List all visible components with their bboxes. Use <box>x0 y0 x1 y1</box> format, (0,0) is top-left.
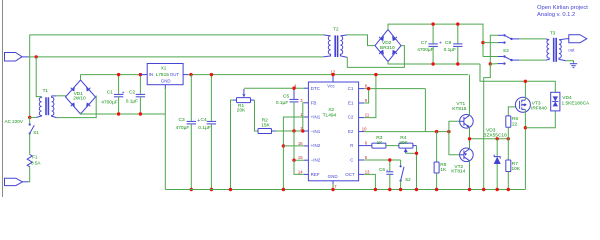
svg-text:OUT: OUT <box>170 72 180 77</box>
svg-text:+IN1: +IN1 <box>311 115 321 120</box>
svg-text:1K: 1K <box>377 140 384 146</box>
svg-text:T3: T3 <box>550 31 556 36</box>
MOSFET VT3 IRF840 <box>515 97 547 112</box>
wire T2 secondary bottom under-bridge to VD2 right <box>347 46 404 68</box>
wire +IN1 pin1 column to bus <box>283 117 304 190</box>
wire R1 left leg to ground bus <box>231 100 234 189</box>
svg-text:R7: R7 <box>512 161 518 167</box>
svg-text:TL494: TL494 <box>323 112 337 118</box>
potentiometer R1 20K <box>233 89 255 114</box>
svg-text:C7: C7 <box>421 40 427 46</box>
capacitor C7 4700uF <box>417 22 442 65</box>
svg-text:GND: GND <box>161 79 171 84</box>
svg-text:AC 220V: AC 220V <box>5 119 24 124</box>
resistor R6 22 <box>506 107 519 139</box>
TVS VD4 1.5KE180CA <box>551 92 590 111</box>
wire VT1 collector to +15 rail <box>469 75 471 116</box>
capacitor C1 4700uF <box>101 73 124 116</box>
wire DTC line (R1 wiper to pin 4) <box>244 87 304 89</box>
svg-text:10K: 10K <box>512 166 521 172</box>
svg-text:S3: S3 <box>503 48 509 53</box>
node Vcc rail tap <box>331 73 334 76</box>
node T1 primary bottom <box>28 116 31 119</box>
svg-text:KT815: KT815 <box>452 106 466 112</box>
transistor VT2 KT814 <box>451 148 473 174</box>
bridge rectifier VD2 BR310 <box>375 30 401 62</box>
feed + to lower throws <box>481 41 484 44</box>
pole1 blade and common <box>504 35 511 39</box>
wire gate drive line <box>470 138 509 140</box>
wire B-extension to bus <box>484 64 491 190</box>
svg-text:out: out <box>568 47 575 52</box>
wire VT2 collector to bus <box>469 161 471 190</box>
transformer T1 <box>36 88 56 118</box>
wire mid ground bus <box>81 113 166 115</box>
svg-text:15K: 15K <box>261 122 270 128</box>
svg-text:Analog v. 0.1.2: Analog v. 0.1.2 <box>537 12 575 18</box>
title text <box>537 5 588 18</box>
wire base bracket VT1/VT2 <box>449 121 460 155</box>
svg-text:L7815: L7815 <box>156 72 170 78</box>
svg-text:FB: FB <box>311 100 317 105</box>
potentiometer R4 20K <box>399 135 417 153</box>
wire VT3 drain up <box>524 81 526 100</box>
wire source to VD4 bottom <box>525 111 555 128</box>
fuse F1 0.5A <box>27 155 41 167</box>
node mains A <box>35 55 38 58</box>
svg-text:1K: 1K <box>440 167 447 173</box>
wire R3 to R4 <box>386 145 399 147</box>
wire F1 to connector <box>29 167 30 182</box>
capacitor C4 0.1uF <box>198 73 216 191</box>
svg-text:0.5A: 0.5A <box>31 160 41 165</box>
svg-text:GND: GND <box>328 174 339 179</box>
svg-text:S1: S1 <box>33 130 39 135</box>
left pin stubs <box>304 87 309 89</box>
svg-text:E2: E2 <box>348 129 354 134</box>
T1 core <box>45 97 47 115</box>
svg-text:C3: C3 <box>179 117 185 123</box>
svg-text:T1: T1 <box>43 88 49 93</box>
wire mains bus top (to T2 primary top) <box>30 35 324 118</box>
svg-text:20K: 20K <box>237 108 246 114</box>
svg-text:VD4: VD4 <box>562 95 572 101</box>
wire drain node line <box>480 64 555 92</box>
wire VD1 top to +rail <box>80 75 82 80</box>
svg-text:0.1µF: 0.1µF <box>276 100 288 106</box>
svg-text:10: 10 <box>362 127 367 132</box>
wire GND pin to bus <box>332 184 334 190</box>
wire -IN2/REF column <box>294 131 304 160</box>
wire R1 right leg down to R2 <box>255 100 259 131</box>
pole2 lower throw from - node <box>490 63 498 65</box>
svg-text:KT814: KT814 <box>451 168 465 174</box>
capacitor C2 0.1uF <box>126 73 145 116</box>
resistor R2 15K <box>258 117 276 133</box>
svg-text:14: 14 <box>298 169 303 174</box>
svg-text:1.5KE180CA: 1.5KE180CA <box>562 100 591 106</box>
T1 secondary coil <box>52 96 57 118</box>
svg-text:+: + <box>122 90 125 96</box>
wire VD2 bottom to -HV line <box>388 62 480 64</box>
capacitor C5 0.1uF <box>276 87 299 133</box>
svg-text:X2: X2 <box>328 107 334 113</box>
svg-text:0.1µF: 0.1µF <box>198 125 210 131</box>
wire S3 commons to T3 <box>519 38 545 40</box>
switch S3 <box>481 34 519 66</box>
IC X2 TL494 <box>294 70 370 189</box>
wire T2 secondary top to VD2 left <box>347 35 375 46</box>
wire T1 primary bottom <box>30 116 37 118</box>
svg-text:Open Kirlian project: Open Kirlian project <box>537 5 588 11</box>
wire drop to T1 primary top <box>36 57 41 97</box>
svg-text:+: + <box>386 168 389 173</box>
wire R4 wiper to right leg to bus <box>406 152 417 154</box>
wire VD2 top to +HV line <box>388 24 483 56</box>
svg-text:−IN2: −IN2 <box>311 158 321 163</box>
svg-text:T2: T2 <box>333 27 339 32</box>
bottom ground bus <box>165 189 525 191</box>
svg-text:BZX55C18: BZX55C18 <box>483 132 507 138</box>
wire mains bus upper (connector to T2 primary bottom) <box>29 56 324 58</box>
svg-text:C1: C1 <box>348 86 354 91</box>
bridge rectifier VD1 2W10 <box>66 80 96 114</box>
wire pin13 OCT to bus <box>364 174 375 189</box>
svg-text:C2: C2 <box>348 115 354 120</box>
svg-text:C4: C4 <box>201 117 207 123</box>
svg-text:20K: 20K <box>399 140 408 146</box>
svg-text:C1: C1 <box>107 89 113 95</box>
wire X1 GND down to bottom bus <box>164 88 166 190</box>
connector X input bottom <box>5 178 29 185</box>
wire pin5 CT line <box>364 159 400 161</box>
svg-text:OCT: OCT <box>345 172 355 177</box>
wire T1 secondary top to VD1 <box>56 95 66 97</box>
wire S1 to F1 <box>29 134 31 155</box>
regulator X1 L7815 <box>140 64 188 90</box>
svg-text:C2: C2 <box>129 90 135 96</box>
svg-text:C8: C8 <box>445 40 451 46</box>
wire pin8 drop to drive line <box>424 89 426 132</box>
svg-text:IRF840: IRF840 <box>531 106 547 112</box>
svg-text:0.1µF: 0.1µF <box>444 47 456 53</box>
svg-text:11: 11 <box>365 113 370 118</box>
wire +DC rail to X1 <box>81 74 141 76</box>
svg-text:4700µF: 4700µF <box>417 47 433 53</box>
svg-text:+IN2: +IN2 <box>311 143 321 148</box>
svg-text:C6: C6 <box>379 167 385 173</box>
connector out <box>566 35 587 53</box>
wire VT1 emitter down <box>469 127 471 139</box>
switch S1 <box>29 117 40 135</box>
svg-text:+: + <box>439 40 442 46</box>
wire E2 drive line pin10 <box>364 131 449 133</box>
wire VT3 source down <box>524 109 526 189</box>
svg-text:Vcc: Vcc <box>327 84 335 89</box>
svg-text:S2: S2 <box>405 177 411 182</box>
capacitor C8 0.1uF <box>444 22 463 65</box>
svg-text:2W10: 2W10 <box>73 96 86 102</box>
svg-text:REF: REF <box>311 172 320 177</box>
wire +15V rail <box>188 74 468 76</box>
transformer T3 <box>546 31 566 62</box>
svg-text:15: 15 <box>298 155 303 160</box>
svg-text:470µF: 470µF <box>176 125 190 131</box>
right pin stubs <box>359 88 365 90</box>
wire REF pin14 link <box>294 160 304 174</box>
sheet border line <box>2 0 4 197</box>
wire VT2 emitter up <box>469 139 471 149</box>
pole2 blade and common <box>504 57 511 61</box>
wire R2 to pin 2 line <box>276 130 304 132</box>
resistor R5 1K <box>434 132 447 192</box>
svg-text:F1: F1 <box>32 155 38 160</box>
top Vcc stub pin 12 <box>332 75 334 82</box>
svg-text:IN: IN <box>149 72 153 77</box>
wire +IN2 pin16 stub <box>283 145 304 147</box>
svg-text:C5: C5 <box>283 94 289 100</box>
capacitor C3 470uF <box>176 75 201 192</box>
T1 primary coil <box>36 97 41 118</box>
connector X input top <box>5 53 29 62</box>
zener VD3 BZX55C18 <box>483 128 507 192</box>
svg-text:E1: E1 <box>348 100 354 105</box>
wire FB pin3 drop <box>303 103 304 131</box>
bottom GND stub pin 7 <box>332 181 334 185</box>
transformer T2 <box>323 27 347 58</box>
svg-text:DTC: DTC <box>311 86 321 91</box>
switch S2 <box>399 160 411 191</box>
feed - riser to pole1 upper throw <box>490 35 498 64</box>
wire T1 secondary bottom to VD1 right vertex <box>57 96 97 118</box>
resistor R7 10K <box>506 139 521 191</box>
wire pin11 to +15 rail <box>364 75 376 118</box>
svg-text:4700µF: 4700µF <box>101 99 117 105</box>
svg-text:22: 22 <box>512 121 518 127</box>
wire pin8/pin9 node <box>364 87 425 103</box>
ground symbol <box>566 61 578 68</box>
capacitor C6 <box>379 158 393 191</box>
svg-text:X1: X1 <box>161 66 167 71</box>
svg-text:0.1µF: 0.1µF <box>126 98 138 104</box>
resistor R3 1K <box>364 135 386 148</box>
svg-text:−IN1: −IN1 <box>311 129 321 134</box>
svg-text:BR310: BR310 <box>380 45 395 51</box>
svg-text:16: 16 <box>298 141 303 146</box>
svg-text:R6: R6 <box>512 116 518 122</box>
svg-text:13: 13 <box>365 169 370 174</box>
wire VD1 bottom to mid bus <box>80 113 82 115</box>
transistor VT1 KT815 <box>452 101 473 128</box>
